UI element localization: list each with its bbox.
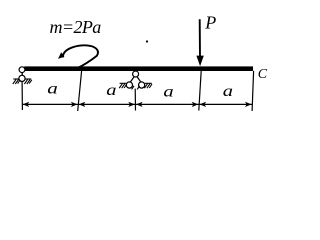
dim arrow seg4 left bbox=[200, 102, 207, 107]
support A hatch strokes bbox=[13, 79, 32, 84]
dim arrow seg2 left bbox=[79, 102, 86, 107]
dimension line bbox=[22, 103, 252, 105]
extension line 3 bbox=[134, 89, 136, 111]
svg-text:a: a bbox=[106, 81, 116, 98]
support B roller right bbox=[139, 82, 145, 88]
extension line 2 bbox=[78, 71, 82, 111]
dim arrow seg1 left bbox=[23, 102, 30, 107]
support B strut right bbox=[137, 77, 141, 82]
support A hinge circle bbox=[19, 67, 25, 73]
svg-text:P: P bbox=[204, 12, 216, 32]
support A ground line right bbox=[25, 78, 31, 80]
support B hatch strokes bbox=[119, 84, 152, 90]
beam AB-C bbox=[24, 66, 253, 71]
support B ground line left bbox=[120, 82, 127, 84]
svg-text:a: a bbox=[47, 80, 58, 98]
moment arc m bbox=[63, 45, 98, 68]
dim arrow seg3 right bbox=[192, 102, 199, 107]
svg-text:a: a bbox=[163, 83, 173, 100]
svg-text:C: C bbox=[258, 67, 268, 82]
extension line 1 bbox=[21, 82, 23, 110]
dim arrow seg2 right bbox=[128, 102, 135, 107]
support A link bbox=[21, 72, 23, 75]
moment arrowhead bbox=[58, 52, 64, 59]
extension line 4 bbox=[199, 71, 201, 111]
svg-text:m=2Pa: m=2Pa bbox=[50, 17, 102, 37]
dim arrow seg3 left bbox=[136, 102, 143, 107]
support B ground line right bbox=[145, 82, 152, 84]
dim arrow seg4 right bbox=[245, 102, 252, 107]
svg-text:a: a bbox=[223, 82, 233, 99]
support A roller circle bbox=[19, 75, 25, 81]
speck dot bbox=[146, 40, 148, 42]
force P arrowhead bbox=[196, 56, 203, 67]
support A ground line left bbox=[13, 78, 19, 80]
dim arrow seg1 right bbox=[71, 102, 78, 107]
extension line 5 bbox=[252, 71, 254, 111]
support B roller left bbox=[126, 82, 132, 88]
support B hinge circle bbox=[133, 71, 139, 77]
force P arrow shaft bbox=[199, 19, 201, 58]
support B strut left bbox=[130, 77, 134, 82]
